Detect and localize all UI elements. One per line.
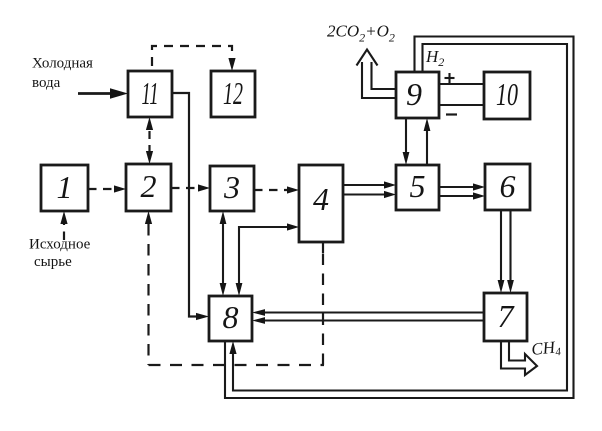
dashed arrow 3 to 4 — [254, 186, 299, 193]
wire 11 right down to 8 — [172, 93, 209, 320]
svg-text:Исходное: Исходное — [29, 237, 91, 253]
block 12 — [211, 71, 255, 117]
svg-text:CH4: CH4 — [530, 337, 562, 361]
arrow raw feed into block 1 — [60, 211, 67, 240]
hydrogen loop pipe inner — [229, 44, 567, 391]
label 2CO2+O2 — [327, 22, 395, 45]
arrow cold water into block 11 — [78, 88, 128, 98]
svg-text:вода: вода — [32, 75, 61, 91]
double wire 6 to 7 — [498, 210, 514, 293]
svg-text:H2: H2 — [425, 47, 444, 69]
label raw feed — [29, 237, 91, 271]
methane outlet hollow arrow — [501, 341, 537, 375]
wire 8 up right into 4 — [236, 223, 299, 296]
svg-text:1: 1 — [57, 169, 73, 205]
minus sign — [446, 113, 457, 115]
svg-text:Холодная: Холодная — [32, 56, 93, 72]
block 5 — [396, 165, 439, 210]
block 3 — [210, 166, 254, 211]
svg-text:2: 2 — [141, 168, 157, 204]
svg-text:4: 4 — [313, 181, 329, 217]
hydrogen loop pipe outer — [225, 37, 574, 399]
svg-text:7: 7 — [498, 298, 516, 334]
svg-text:2CO2+O2: 2CO2+O2 — [327, 22, 395, 45]
label H2 — [425, 47, 444, 69]
block 4 — [299, 165, 343, 242]
dashed arrow 1 to 2 — [88, 185, 126, 192]
svg-text:5: 5 — [410, 168, 426, 204]
dashed bottom horizontal — [149, 364, 325, 366]
dashed vertical up to block 4 — [322, 242, 324, 365]
svg-text:сырье: сырье — [34, 254, 72, 270]
svg-text:10: 10 — [496, 76, 518, 112]
block 7 — [484, 293, 527, 341]
double wire 7 to 8 — [252, 309, 484, 324]
dashed bidirectional link 2 and 11 — [146, 117, 153, 164]
svg-text:11: 11 — [142, 75, 159, 111]
bidirectional double wire 9 and 5 — [403, 118, 431, 165]
double wire 4 to 5 — [343, 181, 396, 198]
block 8 — [209, 296, 252, 341]
label CH4 — [530, 337, 562, 361]
bidirectional wire 3 and 8 — [220, 211, 227, 296]
label cold water — [32, 56, 93, 92]
block 1 — [41, 165, 88, 211]
dashed link 11 over top into 12 — [152, 46, 236, 71]
plus sign — [445, 73, 455, 83]
dashed arrow 2 to 3 — [171, 184, 210, 191]
double wire 9 to 10 — [439, 84, 484, 105]
block 9 — [396, 72, 439, 118]
svg-text:3: 3 — [223, 169, 240, 205]
block 2 — [126, 164, 171, 211]
block 11 — [128, 71, 172, 117]
svg-text:6: 6 — [500, 168, 516, 204]
CO2 exhaust hollow arrow — [357, 50, 397, 99]
block 6 — [485, 164, 530, 210]
svg-text:9: 9 — [406, 76, 422, 112]
dashed line from block 2 bottom down — [145, 211, 152, 365]
svg-text:12: 12 — [223, 75, 243, 111]
block 10 — [484, 72, 530, 119]
svg-text:8: 8 — [223, 299, 239, 335]
double wire 5 to 6 — [439, 183, 485, 199]
